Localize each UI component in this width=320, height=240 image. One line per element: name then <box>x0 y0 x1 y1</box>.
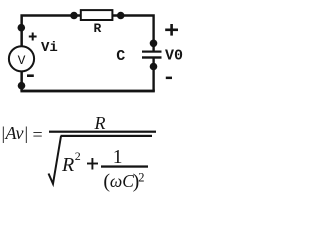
minus sign at output <box>166 77 172 80</box>
label Vi <box>41 40 58 56</box>
capacitor C top plate <box>142 51 162 53</box>
voltage source Vi <box>9 46 34 71</box>
label V0 <box>165 47 183 64</box>
svg-text:|Av|: |Av| <box>1 123 29 143</box>
label R <box>94 21 102 36</box>
svg-text:ωC: ωC <box>110 171 134 191</box>
junction dot left of resistor <box>70 12 78 20</box>
junction dot above capacitor <box>150 40 158 48</box>
formula small fraction denominator (omega C) squared <box>103 171 144 193</box>
resistor R <box>81 10 113 20</box>
junction dot on left vertical (top) <box>18 24 26 32</box>
plus sign at source <box>29 33 37 41</box>
svg-text:V: V <box>18 53 26 68</box>
formula |Av| = <box>1 123 43 145</box>
plus sign at output <box>165 24 178 36</box>
wire bottom segment <box>20 90 154 93</box>
svg-text:V0: V0 <box>165 47 183 64</box>
svg-text:R: R <box>94 113 106 133</box>
wire top-right segment <box>113 14 155 51</box>
formula small fraction numerator 1 <box>113 147 123 168</box>
svg-text:2: 2 <box>75 149 81 163</box>
capacitor C bottom plate <box>142 56 162 58</box>
svg-text:=: = <box>33 125 43 145</box>
formula small fraction bar <box>101 165 148 167</box>
junction dot below capacitor <box>150 63 158 71</box>
formula numerator R <box>94 113 106 133</box>
svg-text:R: R <box>94 21 102 36</box>
svg-text:2: 2 <box>138 171 144 185</box>
svg-text:1: 1 <box>113 147 123 168</box>
svg-text:R: R <box>61 154 74 176</box>
formula square root radical <box>49 136 62 184</box>
wire right lower segment <box>152 58 154 92</box>
junction dot right of resistor <box>117 12 125 20</box>
formula R squared term <box>61 149 81 176</box>
formula plus operator <box>87 158 98 170</box>
wire left lower segment <box>20 71 23 91</box>
formula main fraction bar <box>49 131 156 133</box>
label C <box>116 48 125 65</box>
svg-text:Vi: Vi <box>41 40 58 56</box>
junction dot on left vertical (bottom) <box>18 82 26 90</box>
formula square root overline <box>61 135 153 137</box>
minus sign at source <box>27 74 34 77</box>
wire top-left segment <box>20 14 80 46</box>
svg-text:C: C <box>116 48 125 65</box>
